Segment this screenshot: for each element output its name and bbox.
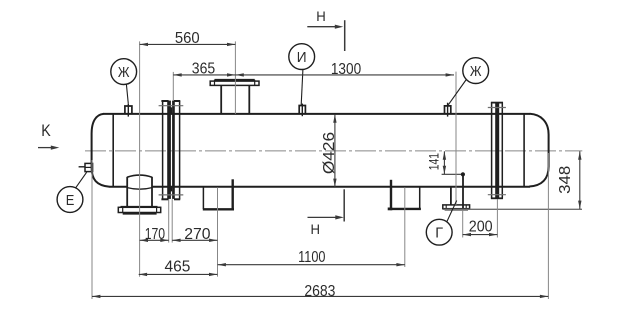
svg-text:348: 348 bbox=[557, 166, 574, 194]
left saddle left wall bbox=[202, 187, 204, 209]
extension line at drain nozzle center bbox=[139, 41, 141, 276]
nozzle G flange body bbox=[443, 205, 470, 209]
right saddle centerline extension bbox=[404, 187, 406, 267]
nozzle G neck left bbox=[450, 187, 452, 205]
extension line at left flange gasket (top) bbox=[172, 72, 174, 101]
nozzle G center extension bbox=[455, 72, 457, 205]
section marker H bottom bar bbox=[343, 189, 345, 221]
nozzle G flange bottom face bbox=[445, 209, 468, 211]
svg-text:365: 365 bbox=[192, 60, 215, 77]
nozzle E body bbox=[85, 163, 93, 171]
dimension 365 bbox=[173, 74, 235, 76]
right girth flange outer left line bbox=[491, 102, 493, 198]
label E leader bbox=[76, 172, 87, 188]
extension line at main nozzle center bbox=[234, 41, 236, 114]
nozzle G point tick bbox=[442, 173, 461, 175]
left flange bottom cap right bbox=[174, 198, 180, 200]
label I leader bbox=[301, 70, 303, 105]
view K arrow bbox=[38, 147, 53, 149]
left flange top bolt line bbox=[159, 105, 184, 107]
main top nozzle neck right bbox=[248, 85, 250, 114]
label G leader bbox=[447, 201, 457, 222]
nozzle Zh-left body bbox=[125, 106, 132, 114]
label Zh-right circle bbox=[463, 58, 489, 84]
dimension 170 bbox=[140, 239, 169, 241]
section marker H bottom arrow bbox=[308, 216, 338, 218]
left flange top cap left bbox=[161, 100, 168, 102]
svg-text:H: H bbox=[316, 9, 326, 24]
drain nozzle flange bottom face bbox=[123, 212, 157, 214]
left girth flange right disc bbox=[172, 101, 175, 199]
left flange gasket bottom bbox=[169, 187, 172, 192]
extension line gasket left below bbox=[168, 199, 170, 242]
extension line 2683 left bbox=[91, 160, 93, 299]
svg-text:K: K bbox=[41, 122, 51, 140]
drain nozzle domed top bbox=[127, 175, 152, 177]
dimension 348 bbox=[579, 151, 581, 209]
nozzle G stem extension below bbox=[462, 209, 464, 238]
drain nozzle wall right bbox=[151, 177, 153, 207]
dimension 1100 bbox=[218, 264, 405, 266]
nozzle G flange tab left bbox=[445, 205, 447, 208]
svg-text:Ø426: Ø426 bbox=[321, 132, 338, 174]
right flange top bolt line bbox=[488, 107, 506, 109]
right head tangent line bbox=[523, 114, 525, 187]
drain nozzle shell crossing arc bbox=[127, 188, 152, 190]
dimension 200 bbox=[463, 234, 498, 236]
drain nozzle flange top face bbox=[121, 206, 158, 208]
drain nozzle flange tab sep right bbox=[156, 207, 158, 212]
svg-text:E: E bbox=[66, 192, 75, 209]
extension line 2683 right bbox=[547, 153, 549, 299]
right flange top cap bbox=[491, 102, 503, 104]
nozzle I stem bbox=[301, 104, 303, 117]
dimension dia426 bbox=[334, 114, 336, 187]
svg-text:H: H bbox=[310, 222, 320, 237]
svg-text:1300: 1300 bbox=[331, 61, 362, 78]
right saddle left wall bbox=[390, 180, 392, 209]
support baseline bbox=[443, 208, 582, 210]
shell bottom line (main) bbox=[152, 186, 530, 188]
left saddle centerline extension bbox=[217, 187, 219, 276]
svg-text:200: 200 bbox=[469, 218, 493, 235]
right head bbox=[529, 114, 548, 187]
svg-text:Ж: Ж bbox=[470, 63, 482, 80]
nozzle G point dot bbox=[461, 172, 465, 176]
left saddle right wall bbox=[231, 179, 233, 209]
dimension 270 bbox=[172, 239, 217, 241]
svg-text:270: 270 bbox=[184, 226, 211, 243]
main top nozzle flange tab right bbox=[254, 80, 256, 86]
svg-text:Ж: Ж bbox=[118, 64, 130, 81]
nozzle G flange tab right bbox=[465, 205, 467, 208]
label Zh-left circle bbox=[111, 59, 137, 85]
svg-text:Г: Г bbox=[435, 225, 443, 242]
shell top line bbox=[103, 113, 530, 115]
extension line 200 right bbox=[496, 199, 498, 238]
svg-text:170: 170 bbox=[145, 226, 166, 243]
shell bottom line (left of drain nozzle) bbox=[109, 186, 127, 188]
dimension 2683 bbox=[92, 295, 548, 297]
label Zh-right leader bbox=[448, 80, 466, 105]
right girth flange outer right line bbox=[501, 102, 503, 198]
svg-text:2683: 2683 bbox=[304, 283, 335, 300]
label E circle bbox=[57, 187, 83, 213]
nozzle I body bbox=[299, 106, 305, 114]
label G circle bbox=[426, 219, 452, 245]
left girth flange left disc bbox=[167, 101, 171, 199]
right flange bottom cap bbox=[491, 197, 503, 199]
svg-text:465: 465 bbox=[165, 258, 191, 275]
right flange bottom bolt line bbox=[488, 194, 506, 196]
main top nozzle flange plate bbox=[210, 81, 259, 85]
nozzle Zh-left stem bbox=[127, 104, 129, 117]
right saddle bottom bbox=[390, 208, 421, 210]
main top nozzle flange tab left bbox=[214, 80, 216, 86]
nozzle G neck right bbox=[462, 175, 464, 210]
svg-text:1100: 1100 bbox=[298, 249, 326, 266]
section marker H top arrow bbox=[307, 26, 336, 28]
dimension 560 bbox=[140, 43, 236, 45]
left flange bottom bolt line bbox=[159, 194, 184, 196]
main top nozzle neck left bbox=[220, 85, 222, 114]
svg-text:И: И bbox=[297, 49, 307, 66]
left flange bottom cap left bbox=[161, 198, 168, 200]
label Zh-left leader bbox=[126, 84, 128, 104]
nozzle Zh-right body bbox=[445, 106, 451, 114]
nozzle E face tick bbox=[79, 166, 85, 168]
left head tangent line bbox=[112, 114, 114, 187]
svg-text:560: 560 bbox=[175, 30, 200, 47]
left flange top cap right bbox=[174, 100, 180, 102]
drain nozzle flange body bbox=[118, 207, 160, 212]
main top nozzle flange raised face bbox=[215, 79, 255, 81]
left girth flange outer left line bbox=[162, 101, 164, 200]
right saddle foot bbox=[388, 207, 393, 210]
left head bbox=[92, 114, 110, 187]
dimension 141 bbox=[443, 151, 445, 174]
label I circle bbox=[289, 44, 315, 70]
dimension 465 bbox=[139, 273, 218, 275]
centerline (vessel axis) bbox=[85, 150, 582, 152]
section marker H top bar bbox=[344, 20, 346, 51]
svg-text:141: 141 bbox=[427, 153, 443, 170]
dimension 1300 bbox=[235, 74, 454, 76]
drain nozzle flange tab sep left bbox=[122, 207, 124, 212]
extension line gasket right below bbox=[171, 199, 173, 242]
nozzle Zh-right stem bbox=[447, 103, 449, 117]
right girth flange disc bbox=[495, 102, 499, 198]
left flange gasket top bbox=[169, 107, 172, 114]
right saddle right wall bbox=[419, 187, 421, 209]
drain nozzle wall left bbox=[126, 177, 128, 207]
nozzle E mid line bbox=[85, 166, 93, 168]
left saddle bottom bbox=[203, 208, 234, 210]
left girth flange outer right line bbox=[179, 101, 181, 200]
